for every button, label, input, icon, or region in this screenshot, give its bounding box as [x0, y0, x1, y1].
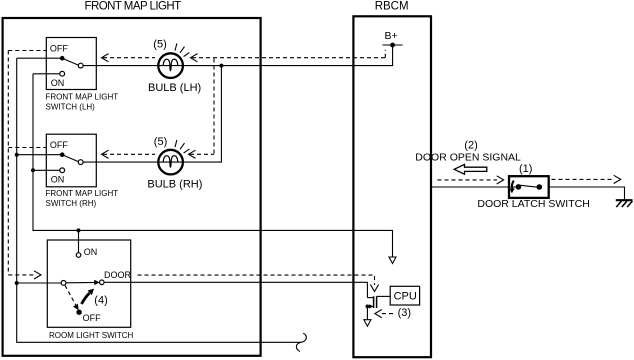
bulb RH	[158, 150, 183, 175]
contact right door latch	[537, 184, 543, 190]
dashed (3) arrow	[382, 313, 394, 315]
junction transistor source	[366, 305, 370, 309]
junction ON bus at S2	[31, 168, 35, 172]
svg-text:(1): (1)	[519, 163, 532, 175]
contact left door latch	[516, 184, 522, 190]
flow dashed branch row1 to row2	[213, 59, 215, 154]
bulb LH	[158, 53, 183, 78]
svg-text:ON: ON	[51, 175, 64, 185]
svg-text:(4): (4)	[94, 294, 107, 306]
contact OFF S1	[60, 56, 65, 61]
switch lever S1	[62, 58, 78, 65]
junction OFF bus at S2	[15, 153, 19, 157]
bulb RH rays	[175, 140, 189, 153]
CPU box	[390, 286, 419, 305]
wire door latch switch to ground	[549, 187, 625, 199]
bulb LH rays	[175, 43, 189, 56]
open arrow down (continues)	[389, 257, 396, 264]
svg-text:OFF: OFF	[83, 313, 101, 323]
svg-text:DOOR OPEN SIGNAL: DOOR OPEN SIGNAL	[415, 151, 521, 163]
svg-text:ROOM LIGHT SWITCH: ROOM LIGHT SWITCH	[49, 331, 134, 340]
B+ terminal bar	[383, 44, 403, 46]
enclosure RBCM	[353, 16, 431, 357]
svg-text:ON: ON	[84, 247, 98, 257]
flow dashed row1 right, to B+	[192, 50, 385, 58]
contact common room	[61, 281, 66, 286]
switch box S2 (RH)	[46, 134, 96, 187]
wire ON feed S2	[33, 169, 60, 171]
B+ junction dot	[390, 43, 395, 48]
svg-text:(5): (5)	[154, 136, 167, 148]
junction node row1/row2 branch	[219, 64, 223, 68]
svg-text:FRONT MAP LIGHT: FRONT MAP LIGHT	[46, 189, 119, 198]
svg-text:(2): (2)	[464, 140, 477, 152]
wire B+ drop and row1 wire to switch LH common	[83, 45, 393, 66]
chassis ground	[616, 199, 633, 201]
contact common S2	[78, 160, 83, 165]
wire ON drop room switch	[78, 230, 80, 252]
wire source down	[366, 306, 368, 319]
wire OFF feed S1	[17, 57, 62, 59]
wire branch row1 down to row2	[83, 66, 221, 163]
svg-text:RBCM: RBCM	[375, 1, 409, 13]
lever door latch	[520, 185, 539, 187]
svg-text:CPU: CPU	[394, 291, 417, 303]
flow dashed row2 right corner up	[190, 153, 214, 155]
svg-text:FRONT MAP LIGHT: FRONT MAP LIGHT	[85, 1, 182, 13]
svg-text:B+: B+	[385, 30, 398, 42]
svg-text:BULB (LH): BULB (LH)	[148, 82, 201, 94]
wire common feed room	[17, 282, 61, 284]
dashed lever to OFF	[65, 285, 76, 305]
dashed bus down to room switch	[8, 51, 46, 275]
svg-text:(5): (5)	[153, 39, 166, 51]
svg-text:DOOR LATCH SWITCH: DOOR LATCH SWITCH	[477, 198, 589, 210]
contact ON S1	[60, 71, 65, 76]
junction OFF bus at room switch common	[15, 281, 19, 285]
actuator arc door latch	[512, 181, 514, 189]
contact OFF room	[76, 310, 81, 315]
wire OFF feed S2	[17, 154, 62, 156]
svg-text:SWITCH (RH): SWITCH (RH)	[46, 199, 97, 208]
svg-text:ON: ON	[51, 78, 64, 88]
contact DOOR room	[100, 280, 105, 285]
dashed door-open flow to transistor gate area	[138, 275, 375, 285]
contact OFF S2	[60, 152, 65, 157]
junction ON bus at room switch ON	[77, 228, 81, 232]
room light switch box	[47, 240, 130, 327]
svg-text:BULB (RH): BULB (RH)	[147, 178, 202, 190]
dashed arrow RBCM to door latch switch	[438, 179, 498, 181]
OFF bus wire down left side to bottom line	[17, 58, 301, 342]
flow dashed row2 left arrow	[103, 153, 155, 155]
svg-text:(3): (3)	[398, 307, 411, 319]
contact ON S2	[60, 168, 65, 173]
dashed arrow to ground	[552, 178, 615, 180]
wire DOOR line to transistor	[104, 282, 367, 297]
svg-text:DOOR: DOOR	[104, 270, 132, 280]
svg-text:SWITCH (LH): SWITCH (LH)	[46, 102, 96, 111]
svg-text:OFF: OFF	[50, 44, 68, 54]
ON bus wire down to RBCM arrow	[33, 74, 393, 257]
switch box S1 (LH)	[46, 38, 96, 90]
wire ON feed S1	[33, 73, 60, 75]
open arrow down (to ground path)	[364, 320, 371, 327]
svg-text:OFF: OFF	[50, 140, 68, 150]
transistor Q1 (in RBCM)	[367, 297, 373, 299]
flow dashed row1 left arrow	[103, 57, 155, 59]
wire RBCM to door latch switch	[432, 186, 519, 188]
svg-text:FRONT MAP LIGHT: FRONT MAP LIGHT	[46, 93, 119, 102]
hollow left arrow	[454, 164, 487, 174]
continuation squiggle	[296, 333, 306, 351]
contact common S1	[78, 63, 83, 68]
enclosure FRONT MAP LIGHT	[3, 18, 261, 356]
lever room switch to DOOR	[66, 281, 98, 283]
switch lever S2	[62, 155, 78, 162]
return arrow (4)	[82, 293, 90, 304]
contact ON room	[76, 253, 81, 258]
door latch switch box	[509, 176, 549, 198]
